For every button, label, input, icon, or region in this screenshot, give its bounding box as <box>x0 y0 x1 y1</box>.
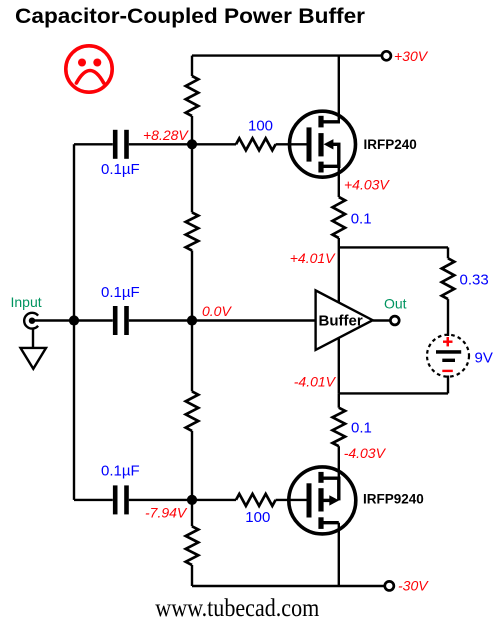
svg-text:-30V: -30V <box>398 578 429 594</box>
wire row1 gate lead <box>276 143 307 145</box>
resistor 100 (top gate) <box>236 138 276 150</box>
wire row1 left <box>74 143 113 145</box>
svg-text:0.1: 0.1 <box>351 211 372 228</box>
junction node 0.0V <box>187 315 197 325</box>
capacitor C1 0.1uF <box>113 130 118 159</box>
svg-text:100: 100 <box>245 509 270 526</box>
wire row3 left <box>74 499 113 501</box>
svg-text:0.1µF: 0.1µF <box>101 161 140 178</box>
wire source lead Q2 <box>338 446 340 478</box>
svg-text:100: 100 <box>248 118 273 135</box>
svg-text:+30V: +30V <box>394 48 429 64</box>
terminal +30V <box>382 51 391 60</box>
svg-text:9V: 9V <box>475 350 493 367</box>
resistor R-a (top bias) <box>186 76 199 116</box>
svg-text:0.0V: 0.0V <box>202 303 232 319</box>
svg-text:IRFP9240: IRFP9240 <box>363 492 424 507</box>
wire right rail to battery <box>447 299 449 336</box>
wire row3 mid <box>129 499 236 501</box>
buffer U1 <box>316 290 373 350</box>
wire mid-rail seg4 <box>191 431 193 526</box>
terminal -30V <box>385 581 394 590</box>
wire output rail (through buffer) <box>338 238 340 393</box>
wire bottom rail -30V <box>192 585 385 587</box>
wire mid-rail seg2 <box>191 116 193 212</box>
svg-text:+8.28V: +8.28V <box>143 127 189 143</box>
sad-face icon <box>66 46 112 92</box>
wire drain lead Q1 <box>338 56 340 122</box>
capacitor C2 0.1uF <box>113 306 118 335</box>
junction node +8.28V <box>187 139 197 149</box>
svg-text:Out: Out <box>384 295 407 311</box>
wire battery bottom <box>447 376 449 394</box>
wire row2 to buffer <box>129 319 316 321</box>
input jack <box>24 313 38 348</box>
resistor 100 (bottom gate) <box>236 494 276 506</box>
svg-text:0.1: 0.1 <box>351 419 372 436</box>
svg-text:+4.03V: +4.03V <box>344 176 390 192</box>
wire -4.01V branch <box>339 392 448 394</box>
svg-text:0.33: 0.33 <box>460 272 489 289</box>
resistor 0.1 (bottom) <box>333 408 346 447</box>
wire mid-rail seg3 <box>191 251 193 392</box>
wire source lead Q1 <box>338 166 340 197</box>
resistor 0.33 <box>442 258 455 299</box>
capacitor C3 0.1uF <box>113 485 118 514</box>
resistor R-b <box>186 212 199 250</box>
svg-text:www.tubecad.com: www.tubecad.com <box>155 595 319 622</box>
wire mid-rail bottom <box>191 565 193 586</box>
ground <box>21 348 47 369</box>
svg-text:+4.01V: +4.01V <box>290 250 336 266</box>
svg-text:-7.94V: -7.94V <box>145 505 188 521</box>
wire row2 input to cap <box>32 319 113 321</box>
wire mid-rail top <box>191 56 193 76</box>
wire +4.01V to battery branch <box>339 246 448 248</box>
wire row1 mid <box>129 143 236 145</box>
wire left rail <box>73 144 75 500</box>
svg-text:Buffer: Buffer <box>319 313 363 330</box>
resistor R-d (bottom bias) <box>186 526 199 565</box>
wire buffer out <box>373 319 391 321</box>
wire right rail top <box>447 247 449 258</box>
svg-text:IRFP240: IRFP240 <box>364 137 417 152</box>
resistor R-c <box>186 391 199 431</box>
battery 9V <box>427 335 469 377</box>
MOSFET Q1 IRFP240 <box>290 56 356 178</box>
junction node input <box>69 315 79 325</box>
svg-text:-4.01V: -4.01V <box>294 373 337 389</box>
svg-text:Input: Input <box>11 294 42 310</box>
svg-text:Capacitor-Coupled Power Buffer: Capacitor-Coupled Power Buffer <box>15 4 366 28</box>
wire top rail +30V <box>192 54 382 56</box>
terminal Out <box>390 316 399 325</box>
resistor 0.1 (top) <box>333 197 346 238</box>
MOSFET Q2 IRFP9240 <box>289 467 356 586</box>
wire row3 gate lead <box>276 499 307 501</box>
svg-text:0.1µF: 0.1µF <box>101 284 140 301</box>
svg-text:0.1µF: 0.1µF <box>101 463 140 480</box>
junction node -7.94V <box>187 495 197 505</box>
wire drain lead Q2 <box>338 523 340 586</box>
wire 0.1 bottom top lead <box>338 393 340 407</box>
svg-text:-4.03V: -4.03V <box>344 445 387 461</box>
